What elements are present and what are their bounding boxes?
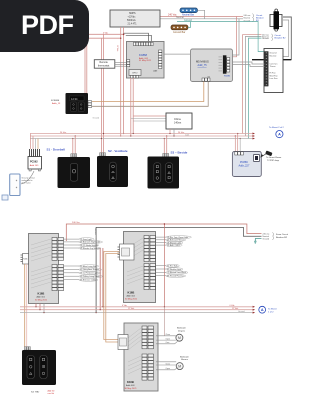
sheet connector A to sheet 2 bbox=[269, 126, 284, 138]
svg-text:Ground: Ground bbox=[184, 19, 193, 22]
wire GPIO down to 24V bus bbox=[130, 78, 132, 136]
wire supply to S2 keypad drop bbox=[103, 34, 105, 152]
wire neutral run down to motor bus bbox=[95, 238, 97, 313]
wire ground drop to fan box bbox=[243, 22, 264, 52]
keypad S4 bbox=[22, 347, 56, 395]
svg-text:Drapes: Drapes bbox=[178, 329, 186, 332]
svg-text:Neutral: Neutral bbox=[176, 16, 184, 19]
svg-text:thermostat: thermostat bbox=[98, 64, 110, 67]
wire controller to chime bbox=[133, 115, 166, 117]
svg-text:To Sheet: To Sheet bbox=[268, 307, 277, 310]
wire drops to PC860 bbox=[234, 136, 236, 152]
wire 240 run down to motor bus bbox=[99, 248, 101, 310]
wire supply to controller dark pair bbox=[124, 33, 149, 42]
fan coil unit box bbox=[264, 49, 283, 93]
svg-text:01 May 2021: 01 May 2021 bbox=[139, 60, 152, 62]
svg-text:Ground: Ground bbox=[263, 239, 270, 241]
load fan lower left box bbox=[64, 266, 80, 280]
svg-text:Ground: Ground bbox=[262, 38, 269, 40]
svg-text:S4: TBD: S4: TBD bbox=[31, 392, 40, 394]
relay keypad KC868E bbox=[51, 93, 99, 119]
svg-text:Sheers: Sheers bbox=[181, 358, 189, 361]
wire chime to bus bbox=[169, 129, 171, 134]
svg-text:30 May 2021: 30 May 2021 bbox=[125, 388, 138, 390]
svg-text:Close: Close bbox=[166, 334, 171, 336]
labels at breaker input bbox=[244, 14, 254, 23]
svg-text:12 Vdc: 12 Vdc bbox=[232, 308, 238, 310]
main controller KC868 bbox=[127, 42, 165, 79]
svg-text:M: M bbox=[178, 365, 181, 369]
wire bus to drape motor bbox=[164, 307, 166, 336]
svg-text:Addr_75: Addr_75 bbox=[198, 64, 208, 67]
svg-text:KC868: KC868 bbox=[139, 53, 147, 57]
svg-text:To Guest Room: To Guest Room bbox=[266, 156, 281, 159]
svg-text:Circuit: Circuit bbox=[256, 14, 263, 17]
svg-text:Ground: Ground bbox=[270, 52, 278, 55]
wire 240 drop to middle box bbox=[163, 224, 165, 307]
svg-text:+12Vdc: +12Vdc bbox=[128, 17, 137, 19]
relay box K16B addr002 bbox=[118, 232, 156, 303]
wire gray ESP32 to relay keypad bbox=[92, 82, 208, 107]
svg-text:24 Vac: 24 Vac bbox=[60, 132, 66, 134]
PDF badge overlay bbox=[0, 0, 89, 52]
svg-text:M: M bbox=[178, 336, 181, 340]
wire breaker to fan box right side bbox=[283, 17, 291, 60]
svg-text:Breaker B2: Breaker B2 bbox=[275, 37, 287, 40]
svg-text:0 Vdc: 0 Vdc bbox=[103, 33, 108, 35]
svg-text:Ground: Ground bbox=[93, 117, 100, 119]
svg-text:Close: Close bbox=[166, 363, 171, 365]
wire ground top bus bbox=[177, 21, 243, 23]
svg-text:(5) Rec Bath: (5) Rec Bath bbox=[167, 264, 178, 267]
svg-text:S1 - Doorbell: S1 - Doorbell bbox=[47, 147, 66, 151]
svg-text:0 Vdc: 0 Vdc bbox=[230, 305, 235, 307]
keypad S1 bbox=[58, 154, 91, 188]
ESP32 gateway U2 bbox=[191, 49, 233, 82]
svg-text:S2 - Vestibule: S2 - Vestibule bbox=[108, 149, 128, 153]
svg-text:Breaker: Breaker bbox=[256, 17, 264, 20]
svg-text:Hi Fan: Hi Fan bbox=[270, 73, 277, 75]
svg-text:From Circuit: From Circuit bbox=[276, 233, 288, 236]
svg-text:S3 – Beside: S3 – Beside bbox=[171, 151, 188, 155]
svg-text:SMPS: SMPS bbox=[129, 13, 136, 15]
svg-text:240 Vac: 240 Vac bbox=[72, 222, 81, 224]
svg-text:Addr 002: Addr 002 bbox=[127, 295, 136, 298]
svg-text:12 Vdc: 12 Vdc bbox=[128, 308, 134, 310]
svg-text:Low Fan: Low Fan bbox=[270, 78, 279, 80]
svg-text:Addr 003: Addr 003 bbox=[126, 384, 135, 387]
svg-text:Ground: Ground bbox=[238, 311, 245, 313]
keypad S2 bbox=[97, 153, 128, 187]
svg-text:LAN: LAN bbox=[153, 70, 158, 73]
svg-text:240 vac: 240 vac bbox=[244, 15, 251, 17]
svg-text:Ground Bar: Ground Bar bbox=[173, 31, 186, 34]
load fan upper middle box bbox=[156, 237, 167, 245]
svg-text:Com: Com bbox=[185, 134, 190, 136]
wire keypad S4 riser bbox=[24, 264, 26, 347]
svg-text:Bedroom: Bedroom bbox=[180, 355, 189, 358]
svg-text:30 May 2021: 30 May 2021 bbox=[125, 299, 138, 301]
svg-text:140ms: 140ms bbox=[174, 122, 182, 125]
ground symbol bbox=[254, 238, 262, 243]
wire controller to ESP32 bbox=[164, 53, 191, 55]
keypad S3 bbox=[148, 154, 180, 189]
svg-text:Com: Com bbox=[166, 342, 170, 344]
wires ESP32 to fan box bbox=[230, 62, 264, 64]
svg-text:Neutral: Neutral bbox=[94, 228, 97, 235]
circuit breaker B1 bbox=[256, 9, 282, 31]
svg-text:Med Fan: Med Fan bbox=[270, 75, 279, 77]
svg-text:Addr 109: Addr 109 bbox=[30, 164, 39, 167]
svg-text:K16B: K16B bbox=[127, 380, 134, 384]
svg-text:A: A bbox=[278, 133, 281, 137]
24V bus bbox=[30, 133, 253, 135]
svg-text:To Sheet 2 of 2: To Sheet 2 of 2 bbox=[269, 126, 284, 129]
ground bar GB1 bbox=[171, 22, 191, 34]
wire rj45 link middle to bottom box bbox=[104, 252, 120, 340]
svg-text:24 Vac: 24 Vac bbox=[178, 132, 184, 134]
relay box K16B addr003 bbox=[118, 323, 158, 391]
relay box K16B addr001 bbox=[21, 234, 64, 304]
load fan upper left box bbox=[64, 239, 80, 248]
wire B2 taps down to 24V bus bbox=[243, 35, 262, 134]
wire tan ESP32 to relay keypad bbox=[92, 82, 204, 102]
svg-text:Neutral: Neutral bbox=[244, 17, 251, 20]
svg-text:Neutral: Neutral bbox=[263, 235, 270, 238]
IP interface PC860 bbox=[232, 151, 281, 177]
svg-text:Neutral: Neutral bbox=[270, 54, 277, 57]
svg-text:Neutral Bar: Neutral Bar bbox=[182, 14, 194, 17]
svg-text:Open: Open bbox=[166, 368, 170, 370]
breaker feed labels bbox=[263, 232, 289, 240]
wire neutral feed bbox=[96, 227, 261, 238]
svg-text:Addr 001: Addr 001 bbox=[37, 296, 46, 299]
wire 240Vac top bus bbox=[160, 16, 243, 18]
svg-text:12 Vdc: 12 Vdc bbox=[116, 45, 118, 51]
svg-text:A: A bbox=[261, 308, 264, 312]
svg-text:K16B: K16B bbox=[128, 291, 135, 295]
sheet connector A to sheet 1 bbox=[259, 306, 277, 313]
svg-text:1 of 2: 1 of 2 bbox=[268, 311, 274, 313]
svg-text:12:34: 12:34 bbox=[71, 97, 78, 101]
chime bbox=[166, 113, 192, 129]
svg-text:Therm: Therm bbox=[270, 65, 276, 68]
svg-text:Breaker B2: Breaker B2 bbox=[276, 236, 288, 239]
load label ovals bbox=[79, 238, 94, 241]
door contact bbox=[10, 171, 36, 196]
wire drops to keypad S3 bbox=[163, 139, 165, 154]
thermostat TH1 bbox=[94, 60, 127, 68]
power supply PS1 bbox=[110, 10, 160, 27]
wire 240Vac feed bbox=[66, 224, 261, 241]
wire supply 12V down left pair bbox=[123, 27, 125, 134]
svg-text:TCP/IP drop: TCP/IP drop bbox=[267, 159, 280, 162]
neutral bar NB1 bbox=[180, 8, 205, 19]
svg-text:GPIO: GPIO bbox=[132, 73, 138, 75]
svg-text:card kit: card kit bbox=[48, 392, 55, 395]
wire left box to 12V bus bbox=[35, 304, 37, 307]
svg-text:Addr_13: Addr_13 bbox=[52, 102, 61, 105]
wire drops to keypad S1 bbox=[72, 139, 74, 154]
svg-text:30 May 2021: 30 May 2021 bbox=[35, 300, 48, 302]
svg-text:RJ45: RJ45 bbox=[23, 259, 27, 261]
wires ESP32 up to top bus bbox=[230, 17, 237, 57]
svg-text:door frame: door frame bbox=[22, 181, 31, 184]
svg-text:M5 M-BUS: M5 M-BUS bbox=[196, 60, 209, 64]
svg-text:21 A 4T1: 21 A 4T1 bbox=[128, 23, 138, 26]
page corner mark bbox=[2, 195, 8, 200]
svg-text:5000mA: 5000mA bbox=[127, 19, 136, 22]
motor M2 bedroom sheers bbox=[156, 355, 189, 370]
breaker B2 tap labels bbox=[262, 34, 286, 41]
motor M1 bedroom drapes bbox=[156, 327, 186, 345]
12V bus sheet2 bbox=[20, 306, 253, 308]
svg-text:0 Vdc: 0 Vdc bbox=[122, 305, 127, 307]
wire neutral top bus bbox=[160, 18, 243, 20]
svg-text:KC868E: KC868E bbox=[51, 100, 60, 102]
svg-text:Open: Open bbox=[166, 338, 170, 340]
PC562 interface bbox=[28, 149, 42, 171]
load fan lower middle box bbox=[156, 266, 167, 276]
svg-text:K16B: K16B bbox=[38, 292, 45, 296]
svg-text:Circuit: Circuit bbox=[275, 34, 282, 37]
svg-text:PC562: PC562 bbox=[30, 161, 38, 164]
svg-text:Bedroom: Bedroom bbox=[177, 327, 186, 330]
svg-text:RS485: RS485 bbox=[224, 76, 231, 78]
svg-text:Addr_227: Addr_227 bbox=[239, 165, 250, 168]
wires into PC562 bbox=[30, 134, 32, 150]
